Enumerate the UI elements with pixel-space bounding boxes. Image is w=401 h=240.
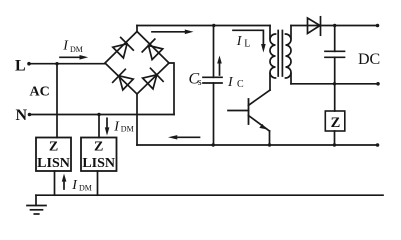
- svg-text:I: I: [113, 120, 120, 135]
- wire output top rail: [291, 25, 378, 27]
- node junction N to LISN2: [97, 113, 100, 116]
- wire N line: [30, 114, 175, 116]
- wire cap bottom to Z box: [334, 57, 336, 111]
- transistor Q1 collector lead: [249, 90, 271, 105]
- diode D5 output rectifier: [308, 17, 321, 35]
- wire N drop to LISN2: [98, 115, 100, 138]
- svg-text:C: C: [237, 79, 244, 90]
- LISN box 1: [36, 138, 71, 172]
- wire bridge top vertex riser: [136, 26, 138, 32]
- node return rail / emitter junction: [268, 143, 271, 146]
- arrow on return rail left-pointing: [168, 135, 200, 139]
- label IDM top: [62, 38, 83, 54]
- wire LISN2 drop to ground rail: [97, 171, 99, 195]
- arrow IDM bottom up-pointing: [62, 174, 67, 190]
- wire output bottom rail: [291, 83, 378, 85]
- wire emitter drop to return rail: [269, 131, 271, 145]
- transistor Q1 base bar: [248, 99, 250, 124]
- capacitor Cs branch upper: [213, 26, 215, 78]
- label IDM bottom: [71, 178, 92, 193]
- transformer T1 primary winding: [269, 26, 271, 39]
- svg-text:s: s: [198, 77, 202, 88]
- svg-text:I: I: [71, 178, 78, 193]
- diode D3 lower-left: [113, 69, 134, 90]
- diode bridge diamond edges: [105, 32, 169, 95]
- diode D2 upper-right: [142, 39, 163, 60]
- svg-text:I: I: [62, 38, 69, 53]
- arrow IC up-pointing: [217, 56, 222, 76]
- svg-text:LISN: LISN: [82, 156, 115, 171]
- wire LISN1 drop to ground rail: [54, 171, 56, 195]
- svg-text:Z: Z: [94, 140, 103, 155]
- arrow on top rail right-pointing: [152, 30, 194, 35]
- svg-text:L: L: [244, 39, 250, 50]
- node junction L to LISN1: [55, 62, 58, 65]
- wire ground rail: [36, 194, 383, 196]
- diode D4 lower-right: [143, 68, 164, 89]
- svg-text:L: L: [15, 57, 26, 74]
- svg-text:N: N: [16, 107, 28, 124]
- wire L line: [29, 63, 105, 65]
- capacitor Cs branch lower: [213, 83, 215, 145]
- label IL: [236, 34, 251, 50]
- label Cs: [189, 71, 202, 89]
- arrow IDM top right-pointing: [60, 55, 88, 60]
- svg-text:Z: Z: [49, 140, 58, 155]
- svg-text:DC: DC: [358, 51, 380, 68]
- capacitor C2 output filter branch: [334, 26, 336, 52]
- arrow IL bent down-pointing: [233, 30, 266, 52]
- svg-text:DM: DM: [70, 45, 83, 54]
- transformer T1 core: [278, 31, 282, 77]
- node return rail / Cs junction: [212, 143, 215, 146]
- node DC+ output terminal dot: [376, 24, 380, 28]
- label IDM mid (below N wire): [113, 120, 133, 135]
- node DC- output terminal dot: [376, 82, 380, 86]
- node top rail / Cs junction: [212, 24, 215, 27]
- svg-text:Z: Z: [331, 115, 341, 131]
- label Z LISN box1: [37, 140, 70, 172]
- diode D1 upper-left: [113, 38, 134, 58]
- svg-text:LISN: LISN: [37, 156, 70, 171]
- svg-text:AC: AC: [30, 85, 50, 100]
- wire return rail: [137, 144, 378, 146]
- svg-text:I: I: [236, 34, 243, 49]
- node N terminal dot: [28, 113, 32, 117]
- wire L drop to LISN1: [56, 64, 58, 138]
- LISN box 2: [81, 138, 117, 172]
- transistor Q1 base lead: [228, 110, 249, 112]
- svg-text:DM: DM: [121, 125, 134, 134]
- label IC: [227, 75, 244, 90]
- wire N riser to bridge right vertex: [169, 63, 175, 115]
- wire bridge bottom drop: [136, 94, 138, 145]
- impedance Z box: [325, 111, 345, 131]
- svg-text:DM: DM: [79, 183, 92, 192]
- wire Z box to return rail: [334, 131, 336, 145]
- arrow IDM mid down-pointing: [105, 118, 110, 135]
- node output rail / filter cap junction: [333, 24, 336, 27]
- node return rail / Z junction: [333, 143, 336, 146]
- transistor Q1 emitter lead with arrowhead: [249, 116, 270, 132]
- svg-text:I: I: [227, 75, 234, 90]
- label Z LISN box2: [82, 140, 115, 172]
- wire top DC rail: [137, 25, 270, 27]
- ground symbol: [27, 195, 46, 214]
- capacitor C2 plates: [325, 51, 345, 57]
- transformer T1 secondary winding: [290, 26, 292, 39]
- node L terminal dot: [27, 62, 31, 66]
- node bottom rail / Z branch junction: [333, 82, 336, 85]
- capacitor Cs plates: [203, 77, 222, 83]
- node return rail end terminal dot: [376, 143, 380, 147]
